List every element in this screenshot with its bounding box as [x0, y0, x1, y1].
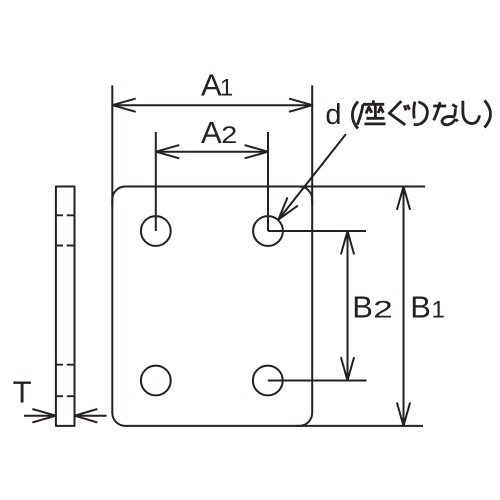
svg-text:A: A	[201, 115, 222, 150]
arrowhead B2 top	[341, 231, 354, 254]
svg-text:B: B	[352, 290, 373, 325]
hidden line bottom hole upper tangent	[56, 364, 75, 366]
extension line B2 top (from top-right hole center)	[268, 230, 366, 232]
extension line A1 left	[111, 85, 113, 205]
hiragana na: top horizontal	[433, 105, 446, 108]
dimension line A1	[112, 104, 312, 106]
dimension T right arrow	[75, 409, 107, 422]
arrowhead A1 left	[112, 99, 135, 112]
front view plate outline	[112, 187, 312, 426]
kanji za: bottom horizontal	[364, 123, 385, 126]
kanji za: middle horizontal	[366, 117, 384, 120]
hidden line top hole upper tangent	[56, 214, 75, 216]
arrowhead B1 top	[397, 187, 410, 210]
dimension line A2	[156, 151, 268, 153]
hiragana gu: ku stroke	[389, 101, 405, 125]
kanji za: right person	[378, 107, 383, 113]
hole top-right	[253, 216, 283, 246]
hidden line bottom hole lower tangent	[56, 395, 75, 397]
extension line B1 top (plate top edge extended)	[296, 186, 425, 188]
kanji za: left leg	[357, 104, 363, 125]
hiragana na: left diagonal	[434, 102, 440, 120]
kanji za: top tick	[372, 100, 375, 104]
dimension T left arrow	[24, 409, 56, 422]
kanji za: center stem	[374, 105, 377, 118]
fullwidth open paren	[352, 102, 358, 129]
extension line A1 right	[311, 85, 313, 205]
hiragana na: right tick	[452, 104, 457, 107]
extension line A2 left	[155, 132, 157, 231]
extension line A2 right	[267, 132, 269, 231]
svg-text:2: 2	[221, 122, 237, 149]
hiragana na: vertical with loop	[442, 108, 458, 124]
hiragana shi	[463, 101, 480, 124]
hiragana gu: dakuten	[404, 105, 409, 111]
arrowhead A2 right	[245, 145, 268, 158]
leader line d	[278, 134, 346, 220]
svg-text:A: A	[201, 68, 222, 103]
svg-text:1: 1	[220, 75, 233, 102]
svg-text:1: 1	[432, 297, 445, 324]
hole bottom-left	[141, 366, 171, 396]
hiragana ri: left stroke	[414, 102, 415, 119]
hole bottom-right	[253, 366, 283, 396]
arrowhead A2 left	[156, 145, 179, 158]
hole top-left	[141, 216, 171, 246]
svg-text:B: B	[410, 290, 431, 325]
dimension line B2	[347, 231, 349, 381]
kanji za: left person	[366, 107, 372, 114]
arrowhead A1 right	[289, 99, 312, 112]
dimension line B1	[403, 187, 405, 426]
svg-text:d: d	[325, 99, 341, 131]
hiragana ri: right stroke	[414, 102, 428, 125]
side view plate (left thin rectangle)	[56, 187, 75, 426]
extension line B2 bottom (from bottom-right hole center)	[268, 380, 367, 382]
arrowhead B2 bottom	[341, 357, 354, 380]
svg-text:2: 2	[373, 297, 393, 324]
fullwidth close paren	[485, 101, 491, 128]
arrowhead B1 bottom	[397, 403, 410, 426]
extension line B1 bottom (plate bottom edge extended)	[296, 425, 423, 427]
kanji za: top horizontal	[363, 103, 384, 106]
svg-text:T: T	[13, 375, 32, 410]
hidden line top hole lower tangent	[56, 245, 75, 247]
arrowhead leader	[278, 197, 298, 219]
